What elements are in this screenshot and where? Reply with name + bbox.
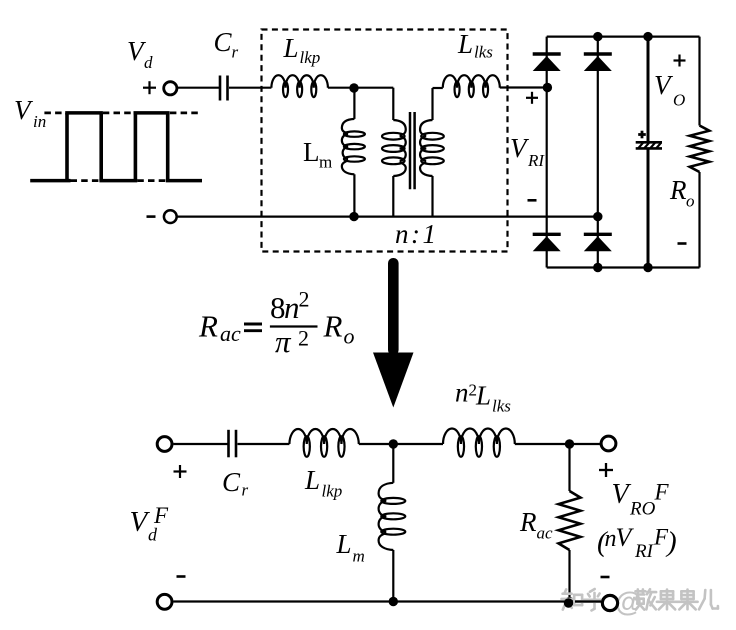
svg-text:o: o [344,324,355,349]
svg-text:V: V [612,479,632,510]
svg-text:π: π [275,324,292,359]
svg-text:lks: lks [474,43,493,62]
svg-text:d: d [144,53,153,72]
svg-text:lkp: lkp [322,482,343,501]
svg-text:2: 2 [298,326,309,351]
svg-text:F: F [654,480,670,505]
svg-text:R: R [519,507,537,537]
svg-text:lks: lks [492,397,511,416]
svg-text:r: r [232,43,239,62]
svg-text:2: 2 [299,286,310,311]
svg-text:in: in [33,112,46,131]
svg-text:m: m [319,153,332,172]
svg-text:L: L [283,33,299,63]
svg-text:r: r [242,481,249,500]
svg-text:L: L [304,465,320,495]
svg-text:O: O [673,91,685,110]
svg-text:L: L [475,381,491,411]
svg-text:lkp: lkp [300,48,321,67]
svg-text:n: n [455,378,469,408]
svg-text:L: L [457,29,473,59]
svg-text:RI: RI [634,541,655,562]
svg-text:R: R [323,309,343,344]
svg-text:F: F [153,503,169,528]
svg-text:L: L [303,137,320,167]
svg-text:R: R [198,309,218,344]
svg-text:L: L [336,529,352,559]
svg-text:ac: ac [537,524,554,543]
svg-text:ac: ac [220,321,241,346]
svg-text:RI: RI [527,151,545,170]
svg-text:m: m [353,546,365,565]
svg-text:o: o [686,192,695,211]
svg-text:C: C [222,467,241,497]
svg-text:R: R [669,175,687,205]
svg-text:n:1: n:1 [395,219,439,249]
svg-text:n: n [284,290,300,325]
svg-text:): ) [665,526,677,558]
svg-text:RO: RO [629,499,656,520]
svg-text:C: C [214,27,233,57]
